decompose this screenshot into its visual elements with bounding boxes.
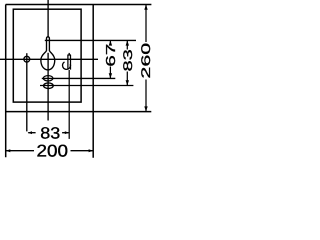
fixture outer box right edge + 200/260-dim right extension line xyxy=(92,5,94,158)
lamp base ring 2 xyxy=(44,83,54,89)
line A: lamp neck reference line (top ref of 67/83 dims) xyxy=(45,39,136,41)
socket hook circle (open at top) xyxy=(62,62,70,69)
socket stem right line xyxy=(70,55,72,70)
83 right dim top arrowhead (up) xyxy=(126,40,129,45)
83 right dim bottom arrowhead (down) xyxy=(126,80,129,85)
83 right dim line lower segment xyxy=(126,72,128,86)
svg-text:83: 83 xyxy=(40,125,60,143)
fixture outer box top edge + top extension line xyxy=(6,4,152,6)
67 dim bottom arrowhead (down) xyxy=(109,73,112,78)
svg-text:260: 260 xyxy=(139,43,153,79)
inner glass panel rectangle xyxy=(13,9,81,102)
200 dim right arrowhead (right) xyxy=(89,149,94,152)
260 dim line upper segment xyxy=(145,5,147,43)
bottom 83 dim left arrowhead (left) xyxy=(28,131,32,134)
socket center extension line / bottom 83-dim right extension xyxy=(68,70,70,139)
fixture outer box bottom edge + bottom extension line xyxy=(6,111,152,113)
fixture outer box left edge + 200-dim left extension line xyxy=(5,5,7,158)
bottom 83 dim line left segment xyxy=(28,132,35,134)
83 right dim line upper segment xyxy=(126,40,128,49)
left hole vertical center line / 83-dim left extension xyxy=(26,53,28,131)
67 dim top arrowhead (up) xyxy=(109,40,112,45)
line C: lamp base ring 2 reference line (bottom ref of right 83 dim) xyxy=(40,85,133,87)
lamp base ring 1 xyxy=(43,76,53,81)
lamp bulb body xyxy=(41,51,55,70)
socket stem shoulder cap xyxy=(67,54,71,56)
200 dim line right segment xyxy=(71,150,94,152)
67 dim line upper segment xyxy=(109,40,111,44)
socket stem left line xyxy=(67,55,69,70)
bottom 83 dim right arrowhead (right) xyxy=(65,131,69,134)
200 dim left arrowhead (left) xyxy=(6,149,11,152)
svg-text:200: 200 xyxy=(37,141,69,160)
socket contact nub xyxy=(68,53,70,55)
lamp center line upper segment xyxy=(47,0,49,37)
260 dim top arrowhead (up) xyxy=(144,5,147,10)
260 dim bottom arrowhead (down) xyxy=(144,106,147,111)
horizontal line through mounting holes xyxy=(0,58,98,60)
lamp center line lower segment xyxy=(47,53,49,121)
svg-text:67: 67 xyxy=(103,44,118,67)
260 dim line lower segment xyxy=(145,80,147,112)
67 dim line lower segment xyxy=(109,67,111,79)
lamp bulb neck xyxy=(47,37,50,51)
mounting hole left circle xyxy=(24,56,30,62)
200 dim line left segment xyxy=(6,150,34,152)
bottom 83 dim line right segment xyxy=(62,132,69,134)
line B: lamp base ring 1 reference line (bottom ref of 67 dim) xyxy=(42,77,116,79)
svg-text:83: 83 xyxy=(121,49,135,71)
